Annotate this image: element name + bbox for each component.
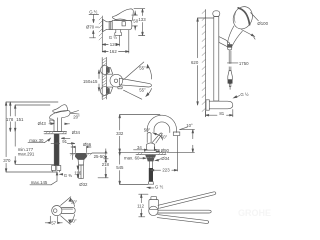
front view: lever stem: [118, 87, 123, 89]
front view: lever: [119, 78, 151, 87]
svg-text:G ½: G ½: [109, 35, 118, 40]
label G 3/8 leader arrow: [60, 174, 63, 176]
svg-text:34: 34: [137, 145, 142, 150]
shower rail: slider holder: [219, 37, 230, 47]
kitchen 50 deg swing arc: [153, 133, 162, 140]
svg-text:50°: 50°: [161, 135, 168, 140]
hose-end reference line: [6, 171, 57, 173]
dimension 34: [134, 147, 160, 151]
bath mixer lever handle: [112, 9, 133, 21]
svg-text:Ø43: Ø43: [38, 121, 47, 126]
basin mixer lever: [53, 105, 68, 113]
svg-text:133: 133: [138, 17, 146, 22]
basin mixer: top reference lines: [6, 101, 58, 103]
svg-text:178: 178: [6, 117, 14, 122]
front view: upper union escutcheon: [100, 66, 109, 75]
bath mixer body: [112, 20, 132, 29]
svg-text:55°: 55°: [139, 65, 146, 70]
basin deck: [44, 132, 67, 134]
pop-up rod: [71, 145, 73, 160]
svg-text:150±15: 150±15: [83, 79, 98, 84]
pop-up waste body: [78, 159, 84, 165]
basin shank below deck: [51, 134, 59, 166]
kitchen top view arm middle: [158, 210, 211, 213]
bath mixer diverter knob: [122, 22, 125, 26]
svg-text:126: 126: [110, 42, 118, 47]
kitchen top view hub: [149, 197, 159, 216]
dimension 116: [77, 166, 79, 178]
svg-text:218: 218: [102, 162, 110, 167]
dimension Ø56: [71, 146, 91, 152]
dimension 133: [134, 9, 145, 36]
svg-text:112: 112: [137, 203, 145, 208]
max 60 leader arrow: [140, 157, 146, 159]
svg-text:Ø70: Ø70: [86, 25, 95, 30]
svg-text:25-50: 25-50: [94, 154, 106, 159]
kitchen spout outlet: [173, 132, 180, 135]
basin mixer body and spout: [50, 111, 71, 132]
svg-text:620: 620: [191, 60, 199, 65]
dimension 150±15: [98, 70, 100, 91]
svg-text:223: 223: [162, 167, 170, 172]
hose connector fitting: [228, 71, 233, 90]
bath mixer escutcheon: [103, 20, 109, 32]
Ø50 leader: [156, 151, 159, 153]
kitchen base escutcheon: [145, 150, 157, 152]
kitchen mounting washer and nut: [145, 155, 156, 162]
svg-text:332: 332: [116, 131, 124, 136]
svg-text:162: 162: [110, 49, 118, 54]
dimension 112: [139, 194, 148, 217]
dimension 91: [55, 143, 75, 145]
kitchen 10 deg lines: [180, 127, 195, 130]
Ø34 leader: [155, 159, 161, 161]
kitchen tail flare: [148, 182, 153, 185]
svg-text:Ø34: Ø34: [72, 130, 81, 135]
svg-text:max. 60: max. 60: [124, 156, 140, 161]
dimension 332 and 545: [119, 115, 160, 185]
svg-text:91: 91: [62, 139, 67, 144]
dimension Ø34 basin leader arrows: [61, 138, 70, 140]
dimension 57: [45, 216, 62, 223]
front view: lower union escutcheon: [100, 87, 109, 96]
kitchen body: [147, 143, 155, 150]
kitchen mixer: spout arc inner: [154, 122, 170, 133]
svg-text:50°: 50°: [144, 128, 151, 133]
svg-text:1750: 1750: [239, 61, 249, 66]
svg-text:G ½: G ½: [240, 92, 249, 97]
kitchen lever vertical: [147, 133, 151, 143]
20 deg handle lines: [70, 111, 79, 115]
kitchen lever tilted: [152, 133, 162, 143]
svg-text:Ø32: Ø32: [79, 182, 88, 187]
basin bowl reference line with hatch: [70, 153, 92, 155]
dimension 178: [10, 102, 12, 132]
svg-text:G ½: G ½: [89, 10, 98, 15]
svg-text:Ø50: Ø50: [161, 148, 170, 153]
basin spout aerator: [50, 120, 54, 123]
svg-text:81: 81: [219, 111, 224, 116]
svg-text:151: 151: [16, 117, 24, 122]
basin hose fittings: [52, 166, 61, 173]
dimension 25-50: [92, 149, 108, 159]
bath mixer cartridge dome: [114, 19, 127, 20]
dimension 151: [14, 105, 16, 132]
dimension 162: [102, 51, 129, 53]
dimension Ø70: [90, 27, 99, 38]
pop-up tailpipe: [79, 165, 84, 179]
basin top view hub: [52, 206, 62, 216]
max.145 underline and arrow: [30, 172, 58, 185]
svg-text:20°: 20°: [73, 115, 80, 120]
front view: cartridge circle: [110, 74, 123, 87]
extension line body end: [128, 30, 130, 53]
front view: 55 deg lower swing: [124, 89, 152, 100]
front view: mixer body arms: [107, 68, 113, 94]
svg-text:370: 370: [3, 158, 11, 163]
label G 1/2 kitchen leader arrow: [147, 187, 154, 189]
front view: wall band: [102, 58, 106, 100]
dimension 223: [151, 136, 178, 171]
dimension 207: [167, 130, 195, 153]
svg-text:Ø100: Ø100: [257, 21, 268, 26]
leader Ø100: [242, 13, 259, 40]
dimension 50: [132, 11, 138, 30]
svg-text:G ½: G ½: [155, 184, 164, 189]
shower rail: rail tube: [213, 11, 220, 101]
svg-text:max.291: max.291: [18, 152, 35, 157]
shower rail: holder knob: [227, 44, 232, 47]
dimension Ø43 arrows: [49, 123, 70, 125]
svg-text:57: 57: [51, 221, 56, 226]
svg-text:Ø34: Ø34: [161, 156, 170, 161]
kitchen mixer: spout arc outer: [147, 115, 176, 132]
svg-text:G ⅜: G ⅜: [64, 173, 73, 178]
dimension 81: [206, 110, 233, 117]
wall hatching: [99, 17, 102, 40]
basin top view swing lower: [61, 214, 75, 224]
svg-text:50°: 50°: [70, 218, 77, 223]
shower rail bottom bracket: [206, 100, 233, 110]
dimension 370: [5, 102, 7, 172]
pop-up waste flange: [75, 153, 86, 159]
svg-text:Ø56: Ø56: [83, 142, 92, 147]
svg-text:max.145: max.145: [31, 180, 48, 185]
dimension 620: [197, 18, 214, 105]
svg-text:55°: 55°: [139, 88, 146, 93]
kitchen threaded tail: [149, 168, 153, 182]
svg-text:GROHE: GROHE: [238, 208, 271, 218]
hand shower handle lower cylinder: [228, 43, 232, 51]
dimension 218: [98, 159, 108, 178]
leader 1750: [227, 62, 238, 64]
basin top view swing upper: [61, 197, 75, 207]
label G 1/2 top: underline and down arrow: [89, 15, 99, 23]
hand shower head: [230, 4, 256, 32]
kitchen top view arm lower: [157, 215, 209, 224]
basin body inner line: [57, 118, 59, 132]
extension line outlet centre: [119, 36, 121, 46]
shower rail: wall: [202, 10, 206, 117]
hand shower handle: [228, 26, 243, 46]
kitchen deck: [136, 152, 166, 154]
dimension min177 max291: [14, 132, 57, 165]
svg-text:50°: 50°: [71, 199, 78, 204]
bath mixer bottom outlet: [115, 30, 122, 36]
bath mixer union nut: [109, 22, 112, 30]
label G 1/2 leader arrow: [234, 96, 240, 98]
dimension 126: [102, 44, 119, 46]
svg-text:max.30: max.30: [29, 138, 44, 143]
kitchen shank tube: [149, 155, 152, 168]
max.30 underline and leader: [28, 138, 50, 142]
svg-text:116: 116: [74, 170, 82, 175]
kitchen top view arm upper: [158, 192, 216, 208]
front view: 55 deg upper swing: [124, 62, 152, 80]
bath mixer side view: wall line: [99, 16, 102, 52]
svg-text:545: 545: [116, 165, 124, 170]
svg-text:10°: 10°: [186, 123, 193, 128]
shower hose: [229, 51, 231, 71]
basin top view lever: [62, 208, 76, 214]
